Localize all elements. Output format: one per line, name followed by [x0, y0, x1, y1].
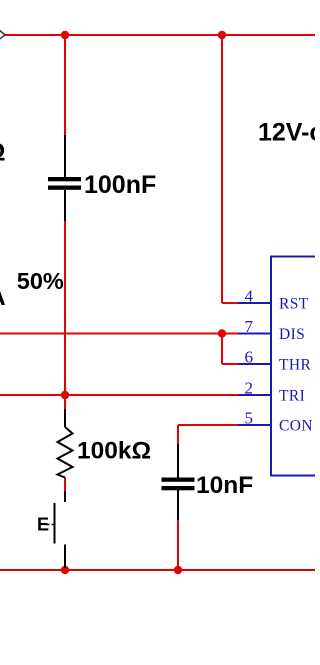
svg-text:50%: 50% [17, 268, 64, 294]
svg-text:TRI: TRI [279, 388, 305, 405]
svg-text:5: 5 [245, 409, 254, 428]
svg-text:DIS: DIS [279, 326, 305, 343]
svg-text:100nF: 100nF [84, 171, 156, 199]
svg-text:2: 2 [245, 379, 254, 398]
svg-text:THR: THR [279, 357, 311, 374]
svg-text:A: A [0, 283, 6, 311]
svg-text:6: 6 [245, 348, 254, 367]
svg-text:10nF: 10nF [196, 472, 253, 499]
svg-text:100kΩ: 100kΩ [77, 438, 151, 465]
svg-text:12V-coil: 12V-coil [258, 119, 315, 147]
svg-text:CON: CON [279, 418, 313, 435]
svg-text:Ω: Ω [0, 139, 6, 167]
svg-text:4: 4 [245, 287, 254, 306]
svg-text:RST: RST [279, 296, 309, 313]
svg-text:E: E [37, 515, 49, 535]
svg-text:7: 7 [245, 317, 254, 336]
